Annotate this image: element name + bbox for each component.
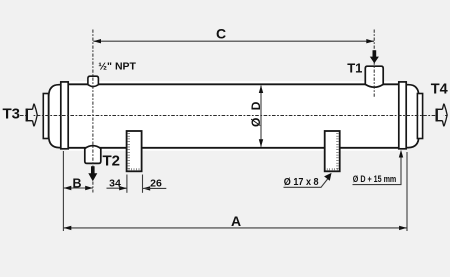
right end ring — [417, 94, 422, 139]
left mounting stud bracket — [127, 131, 142, 171]
dimension C right arrow — [366, 39, 374, 43]
nozzle symbol T4 (flow out) — [436, 104, 448, 126]
svg-text:T3: T3 — [3, 106, 21, 123]
bracket left edge extension line — [126, 175, 128, 193]
dimension 26 arrow — [143, 186, 151, 190]
left flange — [61, 82, 68, 149]
shell body (white fill) — [67, 81, 401, 151]
dimension A right arrow — [399, 226, 407, 230]
vertical centerline through NPT and T2 — [92, 30, 94, 193]
diameter D bottom arrow — [259, 139, 263, 147]
leader line for 17 x 8 — [284, 178, 329, 188]
svg-text:Ø D + 15 mm: Ø D + 15 mm — [353, 174, 397, 184]
flow arrow out of T2 — [88, 166, 97, 181]
shell bottom wall line — [67, 147, 400, 149]
dimension 34 leader line — [107, 187, 127, 189]
svg-text:½" NPT: ½" NPT — [98, 61, 136, 73]
svg-text:T2: T2 — [103, 153, 121, 170]
svg-text:T4: T4 — [431, 82, 448, 98]
left end ring — [43, 94, 48, 139]
dimension 26 leader line — [143, 187, 167, 189]
leader arrow for 17 x 8 — [324, 173, 331, 181]
svg-text:B: B — [72, 176, 81, 190]
dimension B extension line (left flange face) — [62, 151, 64, 231]
dimension C left arrow — [93, 39, 101, 43]
horizontal centerline — [20, 115, 448, 117]
svg-text:C: C — [216, 26, 226, 42]
dimension B right arrow — [85, 186, 93, 190]
diameter D top arrow — [259, 85, 263, 93]
diameter D dimension line — [260, 86, 262, 147]
svg-text:26: 26 — [150, 177, 162, 189]
svg-text:A: A — [231, 213, 241, 229]
leader line for D + 15 — [353, 155, 402, 185]
bracket right edge extension line — [142, 175, 144, 193]
svg-text:Ø 17 x 8: Ø 17 x 8 — [284, 177, 319, 188]
dimension C line — [93, 40, 374, 42]
dimension B left arrow — [64, 186, 72, 190]
dimension A left extension handled above; right extension line — [406, 152, 408, 231]
port T2 (shell outlet, bottom left) — [85, 146, 101, 164]
port T1 (shell inlet, top right) — [365, 66, 383, 87]
svg-text:T1: T1 — [347, 61, 362, 76]
left dome end cap — [49, 85, 65, 148]
dimension A line — [63, 227, 407, 229]
flow arrow into T1 — [370, 50, 379, 63]
shell top wall line — [67, 83, 400, 85]
right flange — [399, 82, 406, 149]
NPT vent port — [88, 76, 99, 86]
dimension B line — [63, 187, 93, 189]
right dome end cap — [401, 85, 419, 148]
dimension 34 arrow — [119, 186, 127, 190]
leader arrow for D + 15 — [399, 150, 403, 158]
nozzle symbol T3 (flow in) — [26, 104, 38, 126]
svg-text:Ø D: Ø D — [249, 100, 263, 127]
dimension A left arrow — [64, 226, 72, 230]
svg-text:34: 34 — [109, 177, 121, 189]
vertical centerline through T1 — [373, 30, 375, 99]
right mounting stud bracket — [325, 131, 340, 171]
